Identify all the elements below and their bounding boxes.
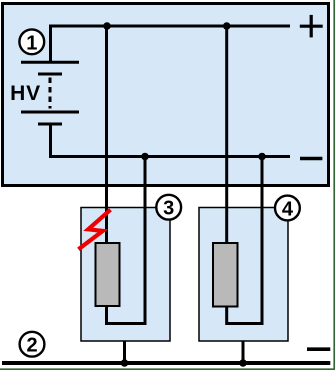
svg-text:4: 4: [282, 199, 294, 221]
svg-text:HV: HV: [10, 82, 41, 105]
svg-text:3: 3: [163, 198, 174, 220]
svg-text:1: 1: [26, 32, 37, 54]
svg-text:2: 2: [26, 335, 37, 357]
